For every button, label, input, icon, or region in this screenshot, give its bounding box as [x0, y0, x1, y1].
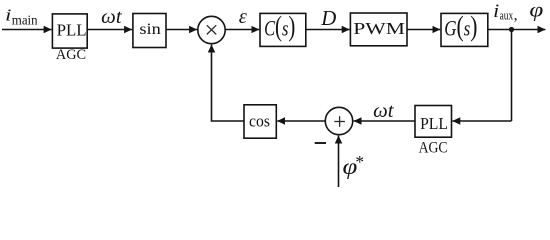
svg-text:D: D	[320, 7, 336, 30]
svg-text:aux: aux	[500, 8, 514, 22]
svg-text:*: *	[355, 152, 364, 172]
svg-text:ε: ε	[239, 6, 248, 28]
svg-text:ωt: ωt	[101, 7, 122, 28]
svg-text:i: i	[493, 1, 499, 21]
svg-text:,: ,	[514, 6, 518, 23]
svg-text:cos: cos	[249, 112, 270, 131]
svg-text:PLL: PLL	[57, 20, 87, 39]
svg-text:main: main	[12, 12, 38, 27]
svg-text:i: i	[5, 7, 11, 25]
svg-text:AGC: AGC	[419, 139, 448, 156]
svg-text:AGC: AGC	[56, 47, 86, 63]
svg-text:G(s): G(s)	[444, 12, 477, 42]
svg-text:PWM: PWM	[353, 19, 405, 38]
svg-text:sin: sin	[139, 21, 160, 38]
svg-text:ωt: ωt	[373, 101, 394, 122]
svg-text:φ: φ	[529, 0, 543, 22]
svg-text:C(s): C(s)	[264, 12, 295, 43]
svg-text:PLL: PLL	[420, 114, 448, 133]
